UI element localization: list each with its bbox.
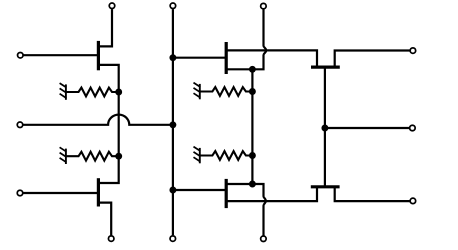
transistor Q5 bar bbox=[311, 65, 340, 68]
transistor Q1 bar bbox=[97, 41, 100, 70]
wire Q4 source to bottom terminal bbox=[98, 203, 111, 236]
chassis ground G2 bbox=[60, 147, 67, 164]
terminal input3 bbox=[17, 190, 23, 196]
junction dot D3 bbox=[169, 54, 176, 61]
wire Q2 source with hop up to top terminal bbox=[226, 9, 266, 69]
terminal top1 bbox=[109, 3, 115, 9]
terminal output3 bbox=[410, 198, 416, 204]
terminal output1 bbox=[410, 48, 416, 54]
terminal bottom1 bbox=[108, 236, 114, 242]
terminal bottom2 bbox=[170, 236, 176, 242]
junction dot D9 bbox=[249, 181, 256, 188]
junction dot D5 bbox=[169, 187, 176, 194]
wire Q1 source down to Q4 drain bbox=[98, 65, 118, 183]
resistor R1 bbox=[67, 88, 119, 97]
terminal input2 bbox=[17, 122, 23, 128]
junction dot D4 bbox=[169, 121, 176, 128]
junction dot D1 bbox=[115, 89, 122, 96]
wire middle rail vertical bbox=[172, 9, 174, 235]
junction dot D10 bbox=[321, 125, 328, 132]
wire Q6 lead to right bottom terminal bbox=[335, 187, 410, 201]
wire input2 with crossover hop to node at middle rail bbox=[23, 115, 173, 125]
wire Q2 drain to Q5 lead bbox=[226, 50, 317, 67]
terminal top2 bbox=[170, 3, 176, 9]
junction dot D8 bbox=[249, 152, 256, 159]
junction dot D6 bbox=[249, 66, 256, 73]
wire node to Q3 gate bbox=[173, 189, 226, 191]
resistor R3 bbox=[200, 87, 252, 96]
transistor Q4 bar bbox=[97, 178, 100, 206]
junction dot D7 bbox=[249, 88, 256, 95]
wire node to right middle terminal bbox=[325, 127, 409, 129]
chassis ground G4 bbox=[194, 147, 201, 164]
chassis ground G3 bbox=[194, 83, 201, 100]
wire right gate rail Q5 to Q6 bbox=[324, 67, 326, 187]
wire Q5 lead to right top terminal bbox=[335, 51, 410, 68]
resistor R4 bbox=[200, 151, 252, 160]
terminal bottom3 bbox=[261, 236, 267, 242]
terminal top3 bbox=[261, 3, 267, 9]
terminal input1 bbox=[18, 52, 24, 58]
terminal output2 bbox=[410, 125, 416, 131]
resistor R2 bbox=[67, 152, 119, 161]
transistor Q6 bar bbox=[311, 185, 340, 188]
wire Q3 drain with hop down to bottom terminal bbox=[226, 184, 266, 236]
wire Q3 source to Q6 lead bbox=[226, 187, 317, 201]
transistor Q3 bar bbox=[225, 179, 228, 208]
chassis ground G1 bbox=[60, 83, 67, 100]
wire second-stage vertical bbox=[251, 69, 253, 184]
wire input1 to Q1 gate bbox=[24, 54, 98, 56]
transistor Q2 bar bbox=[225, 42, 228, 74]
wire input3 to Q4 gate bbox=[23, 192, 97, 194]
wire Q1 drain to top terminal bbox=[98, 9, 112, 46]
wire node to Q2 gate bbox=[173, 57, 226, 59]
junction dot D2 bbox=[115, 153, 122, 160]
